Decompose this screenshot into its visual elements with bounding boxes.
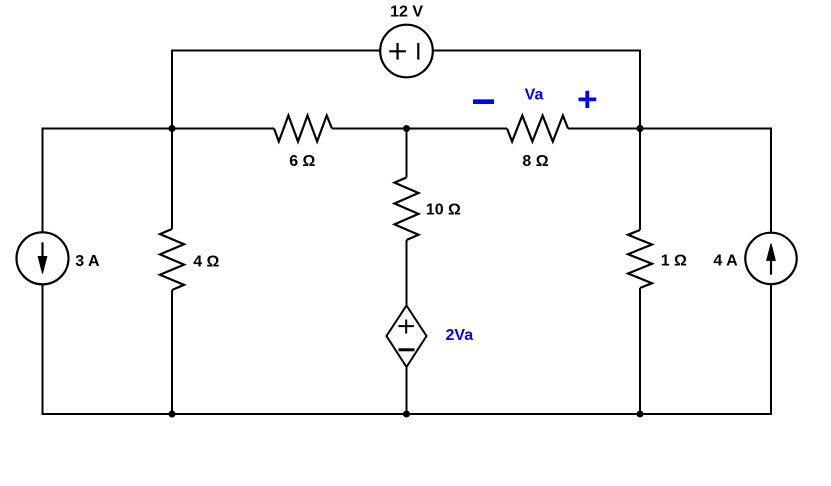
wire 1ohm branch upper	[639, 129, 641, 231]
svg-text:10 Ω: 10 Ω	[426, 202, 461, 219]
node junction C	[637, 125, 644, 132]
svg-text:3 A: 3 A	[75, 253, 100, 270]
wire top-left L (12V left terminal down to node A)	[172, 51, 380, 129]
wire bottom middle-right	[407, 413, 641, 415]
label minus (blue)	[473, 99, 494, 104]
resistor R1 6ohm	[274, 116, 332, 142]
resistor R5 1ohm	[628, 230, 652, 288]
wire left rail lower + bottom-left	[43, 284, 173, 414]
resistor R3 4ohm	[160, 229, 184, 290]
label plus (blue)	[579, 91, 597, 108]
svg-text:1 Ω: 1 Ω	[661, 253, 687, 270]
wire 1ohm branch lower	[639, 288, 641, 414]
node junction D	[169, 411, 176, 418]
svg-text:6 Ω: 6 Ω	[289, 153, 315, 170]
wire 4ohm branch lower	[171, 290, 173, 414]
svg-text:4 A: 4 A	[713, 253, 738, 270]
svg-text:2Va: 2Va	[446, 327, 474, 344]
resistor R2 8ohm	[507, 116, 568, 142]
wire bottom middle-left	[172, 413, 407, 415]
node junction B	[403, 125, 410, 132]
svg-text:12 V: 12 V	[390, 4, 423, 21]
node junction F	[637, 411, 644, 418]
svg-text:Va: Va	[525, 87, 544, 104]
wire middle-right + right rail upper	[568, 129, 771, 234]
wire 4ohm branch upper	[171, 129, 173, 230]
wire middle branch between 10ohm and 2Va	[406, 240, 408, 306]
current source I2 4A	[745, 233, 796, 284]
voltage source U1 12V	[380, 25, 433, 78]
node junction E	[403, 411, 410, 418]
node junction A	[169, 125, 176, 132]
svg-text:4 Ω: 4 Ω	[193, 254, 219, 271]
wire middle-center segment	[332, 128, 507, 130]
wire middle-left + left rail upper	[43, 129, 275, 233]
wire middle branch lower	[406, 367, 408, 414]
wire top-right L (12V right terminal down to node C)	[433, 51, 640, 129]
resistor R4 10ohm	[395, 178, 419, 241]
wire bottom-right + right rail lower	[640, 285, 771, 414]
current source I1 3A	[17, 232, 69, 284]
dependent source U2 2Va diamond	[387, 306, 427, 368]
svg-text:8 Ω: 8 Ω	[522, 153, 548, 170]
wire middle branch upper	[406, 129, 408, 178]
